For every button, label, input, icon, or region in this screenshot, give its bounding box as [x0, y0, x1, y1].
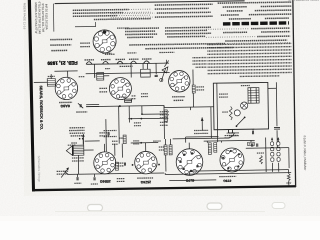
output transformer T4: [73, 145, 84, 155]
resistor stack C: [208, 143, 211, 155]
filter electrolytic C20: [275, 82, 278, 126]
R10 sub-labels: [117, 178, 125, 180]
dial lamp P2: [234, 110, 240, 116]
binder hole 3: [272, 203, 285, 209]
line cord resistor box: [141, 69, 151, 77]
wire T1 to V2: [104, 75, 109, 77]
oscillator trimmer C2: [79, 104, 81, 107]
labels right of branch: [160, 111, 169, 113]
wire y141.8: [204, 139, 255, 142]
socket bottom label: [105, 53, 115, 55]
wire x288 vertical: [288, 148, 290, 168]
socket top label: [117, 27, 129, 29]
transformer label: [241, 84, 250, 86]
text row b2: [155, 7, 209, 10]
resistor R8: [123, 135, 126, 144]
tube V1 6A8G: [55, 77, 78, 100]
tube V7 dark pins: [196, 165, 198, 167]
text row c4: [221, 14, 239, 16]
resistor R14 zigzag: [229, 106, 232, 120]
tone box label: [248, 142, 255, 146]
IF transformer T1: [97, 73, 104, 81]
heater label 5: [142, 58, 151, 60]
svg-text:Schematics.Vintage: Schematics.Vintage: [37, 156, 41, 183]
left block row e2: [50, 44, 71, 46]
wire bus drop 1: [94, 64, 96, 77]
bottom bus left: [68, 173, 164, 174]
bus y139: [173, 137, 230, 140]
svg-text:FEB. 21, 1939: FEB. 21, 1939: [47, 60, 78, 65]
svg-text:©John F. Rider, Publisher: ©John F. Rider, Publisher: [303, 135, 308, 170]
text row c5: [229, 18, 251, 20]
tube V2 6K7: [109, 77, 131, 99]
row above bus: [102, 52, 111, 54]
wire chains to bus: [271, 163, 273, 172]
wire x201.8 arrow: [201, 117, 203, 130]
wire V5 top drops: [104, 144, 106, 152]
date stamp: [47, 60, 78, 65]
tube V3 label: [172, 96, 185, 98]
note row g2: [145, 47, 233, 48]
resistor R16: [260, 156, 263, 165]
socket diagram label: [80, 42, 90, 44]
text row c1: [218, 2, 292, 3]
scan streak: [55, 211, 265, 213]
binder hole 2: [207, 203, 222, 210]
pilot lamp P1: [241, 102, 248, 109]
chain arrows: [271, 137, 273, 140]
wire y70 horizontal: [54, 70, 77, 72]
svg-text:RIDER PAGE 11-16: RIDER PAGE 11-16: [23, 3, 27, 30]
wire V7 top: [188, 143, 190, 149]
ground label: [71, 142, 77, 144]
dotted row d1: [206, 28, 249, 31]
notes paragraph left extension: [192, 57, 206, 59]
wire speaker down: [77, 155, 79, 174]
wire tube V6 grid: [145, 143, 147, 151]
tube V3 6Q7: [168, 70, 190, 92]
wire V1 top: [94, 74, 96, 78]
junction dots mid: [132, 164, 134, 166]
power box labels: [219, 93, 228, 95]
table left rule: [52, 4, 54, 32]
tube V7 bottom lead: [189, 171, 191, 175]
bracket line: [75, 25, 96, 27]
branch y114: [141, 106, 143, 114]
label 50M: [133, 140, 139, 142]
pin voltage rows f4: [127, 36, 153, 38]
left block row e3: [51, 49, 67, 51]
wire transformer to V5: [84, 149, 94, 151]
coupling line y142.5: [131, 142, 158, 144]
antenna symbol: [161, 67, 168, 81]
text row b4: [111, 16, 153, 19]
bus y171.5 segment: [190, 170, 289, 171]
AVC bus left: [86, 105, 164, 106]
pin voltage rows f3: [125, 33, 157, 35]
text row a2: [73, 12, 123, 15]
terminal marks: [79, 138, 81, 140]
pin voltage rows f2: [125, 30, 155, 32]
frame bottom border: [32, 185, 296, 191]
labels near arrow: [194, 129, 208, 131]
text row b3: [111, 12, 155, 15]
wire coil to tube V1: [54, 81, 56, 83]
left block row e1: [50, 38, 72, 40]
pin voltage rows f1: [125, 27, 159, 30]
bus jog: [163, 105, 165, 107]
resistor stack B: [169, 145, 172, 155]
oscillator coil label: [48, 75, 55, 77]
text row a3: [73, 15, 117, 18]
heater label 2: [101, 59, 110, 61]
wire x105.5 vertical: [105, 119, 107, 151]
candohm label: [229, 132, 239, 134]
oscillator coil L1: [47, 79, 55, 87]
label 0.001: [112, 140, 118, 142]
IF transformer T2 boxes: [125, 99, 132, 102]
cathode resistor R10: [115, 162, 118, 170]
wire box drops: [142, 63, 144, 69]
wire x265 vertical: [265, 137, 268, 171]
power box inner wire: [216, 83, 219, 142]
wire x163.8 vertical: [163, 106, 165, 139]
bus end trimmer: [164, 60, 169, 67]
bottom bus right: [165, 173, 291, 175]
heater label 3: [115, 58, 124, 60]
heater label 4: [129, 58, 138, 60]
power transformer T3: [248, 88, 259, 104]
tube V6 25Z6G: [135, 151, 158, 174]
dotted row d2: [223, 31, 247, 33]
speaker label: [68, 144, 76, 146]
labels near V2 bottom: [119, 96, 125, 98]
text row b1: [155, 3, 213, 6]
wire x190 stub: [189, 107, 191, 110]
tube V7 6L7G: [176, 149, 203, 176]
volume control pot: [61, 168, 68, 177]
label C26: [99, 132, 109, 134]
notes paragraph: [207, 43, 291, 44]
wire coil top: [50, 74, 52, 78]
svg-text:INF.10 6110,16110A: INF.10 6110,16110A: [44, 4, 48, 30]
wire bus drop 2: [130, 64, 132, 78]
field coil labels: [72, 157, 84, 159]
note row g1: [129, 44, 225, 45]
svg-text:25Z6G: 25Z6G: [140, 180, 151, 184]
wire avc bus: [86, 104, 99, 106]
antenna mount note: [69, 127, 84, 129]
wire box to cap: [268, 87, 276, 89]
tube V8 6T8G: [220, 148, 244, 172]
dotted row d4: [225, 39, 287, 42]
junction dot V2: [119, 105, 121, 107]
gang condenser cap: [107, 132, 109, 135]
label 0.0027: [153, 140, 160, 142]
grid resistor R5: [192, 70, 194, 85]
tube V5 25B6G: [94, 152, 116, 174]
wire x118.5 vertical: [118, 106, 121, 143]
wire x210.7 vertical: [210, 107, 212, 138]
cap on bus 2: [93, 177, 95, 180]
text row c3: [227, 10, 243, 12]
ground lead wire: [82, 135, 84, 145]
resistor labels 47K: [134, 122, 141, 124]
frame right border: [292, 0, 296, 187]
text row a1: [73, 8, 129, 11]
power pack box: [213, 82, 268, 129]
header band: [223, 21, 289, 25]
speaker cone: [66, 146, 72, 156]
coil left edge: [164, 110, 167, 122]
text row c2: [223, 6, 247, 8]
svg-text:SEARS, ROEBUCK & CO.: SEARS, ROEBUCK & CO.: [39, 85, 44, 130]
tube V1 label: [59, 101, 72, 103]
tube V2 label: [99, 87, 107, 89]
svg-text:25B6G: 25B6G: [100, 179, 111, 183]
candohm chain B: [277, 142, 280, 146]
tube V8 label: [219, 175, 236, 177]
frame left border: [28, 0, 35, 191]
svg-text:6T8G: 6T8G: [223, 179, 232, 183]
tube V6 label: [137, 177, 153, 179]
wire coil to frame: [34, 81, 47, 83]
resistor stack A: [164, 145, 167, 155]
svg-text:6A8G: 6A8G: [60, 104, 70, 108]
dotted row d3: [206, 36, 255, 39]
bus second right: [169, 179, 216, 182]
wire R400 to frame: [288, 181, 290, 186]
step wire y137.4: [186, 136, 219, 138]
wire y73.2 horizontal: [86, 72, 170, 73]
cap pair right: [251, 144, 253, 147]
socket diagram tube: [93, 30, 116, 53]
cap on bus 1: [76, 177, 78, 180]
wire x129 vertical: [128, 106, 130, 122]
power switch SW: [236, 118, 244, 126]
filament bus with heaters: [87, 63, 167, 64]
cap C21: [251, 131, 253, 134]
bias resistor R400: [288, 170, 290, 174]
binder hole 1: [88, 205, 103, 212]
capacitor C bus: [155, 74, 158, 76]
table top rule: [55, 1, 245, 4]
ballast label: [120, 65, 133, 67]
coupling cap C15: [123, 162, 125, 165]
candohm chain A: [271, 142, 274, 146]
heater label 1: [84, 59, 93, 61]
AVC bus right: [164, 106, 213, 109]
line y149.5: [246, 147, 289, 150]
junction bus y118: [128, 117, 168, 120]
AC cord plug: [229, 129, 233, 133]
text row a4: [94, 18, 151, 21]
